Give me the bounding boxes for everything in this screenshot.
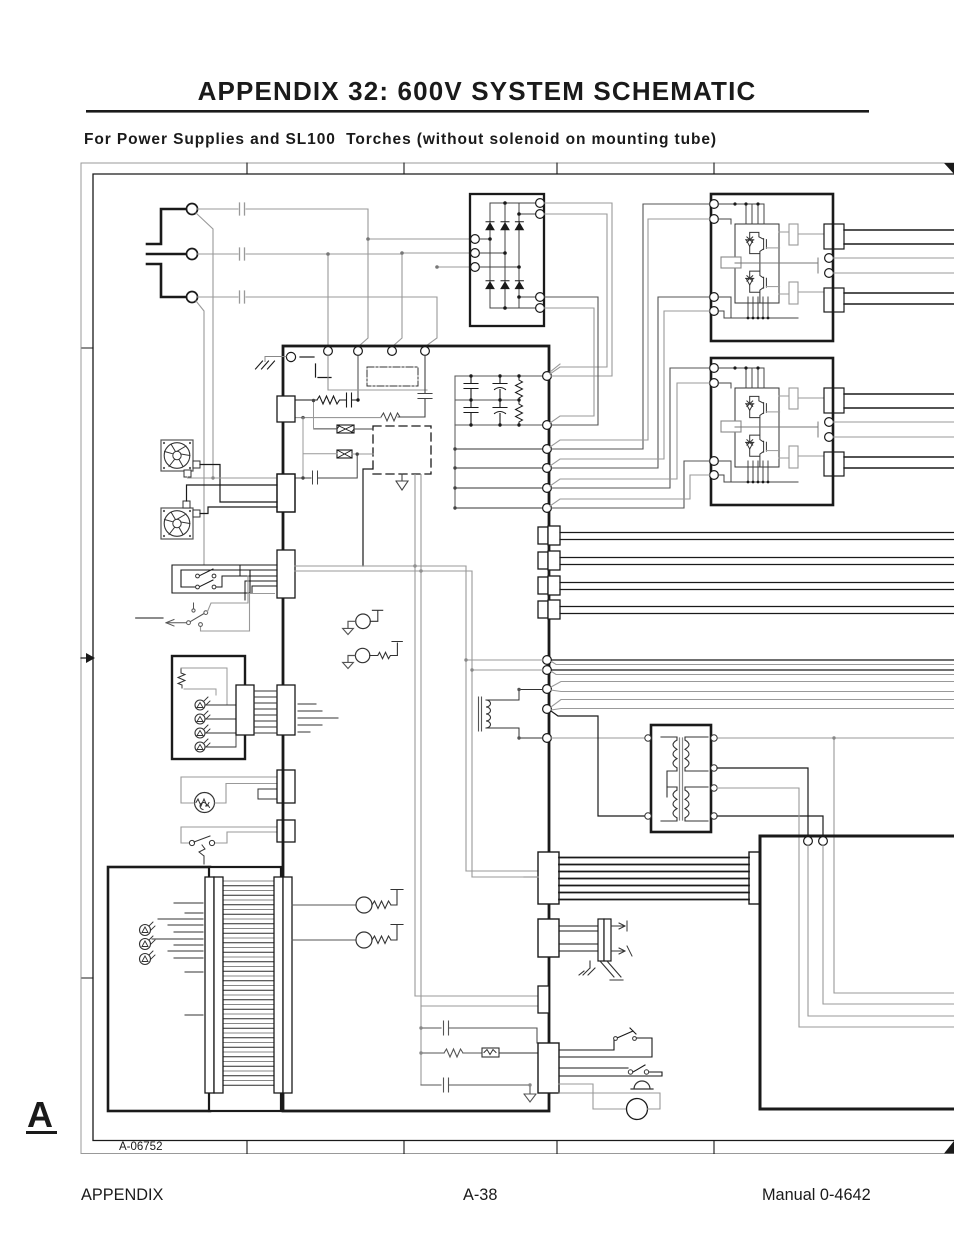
rectifier top bus: [490, 202, 536, 204]
inductor L1 wires: [486, 690, 543, 739]
LED LED3: [195, 728, 205, 738]
HF box: [760, 836, 954, 1109]
switch S4: [559, 1028, 652, 1057]
HF nested wire 2: [808, 846, 954, 1017]
resistor R3: [516, 376, 523, 400]
cap bank mid bus: [455, 399, 519, 401]
module2 snubber rect: [721, 421, 741, 432]
capacitor C4: [464, 376, 478, 400]
wire rect out3 to board circle425: [545, 297, 599, 425]
terminal TB1-3: [187, 292, 198, 303]
module1 output connector CN2: [824, 288, 844, 312]
module2 gate resistor RG3: [789, 388, 798, 409]
module2 mid wire: [735, 422, 818, 437]
input filter resistor R1: [294, 396, 342, 404]
wire phase L1 to board: [246, 209, 368, 346]
transformer T2 terminals: [645, 735, 651, 741]
torch arrow 2: [611, 946, 632, 956]
frame top-right corner triangle: [944, 163, 954, 174]
module2 inner box: [735, 388, 779, 467]
transistor Q4: [746, 440, 754, 449]
capacitor C5: [464, 400, 478, 425]
dashed inverter box: [373, 426, 431, 474]
ribbon cable wires: [223, 881, 274, 1081]
frame bottom-right corner triangle: [944, 1141, 954, 1154]
switch S3 throw wires: [208, 576, 249, 612]
module1 top bus: [718, 204, 764, 224]
diode D1e: [501, 281, 509, 289]
capacitor C-L3: [240, 291, 245, 303]
control led box: [172, 656, 245, 759]
rectifier leg 1: [489, 203, 491, 308]
pin stubs right of J5: [298, 704, 338, 732]
work lead slashes: [600, 961, 623, 980]
fan FAN2 tab1: [183, 501, 190, 508]
HF nested wire 3: [823, 846, 954, 1005]
header bar right J5: [277, 685, 295, 735]
cap bank top bus: [455, 375, 543, 377]
ribbon bundle connector J9: [749, 852, 770, 904]
HF box input circles: [804, 837, 813, 846]
switch S3 lever: [190, 614, 204, 622]
wire L1 to rectifier: [368, 238, 470, 240]
transformer T2 primary bottom: [661, 787, 677, 821]
switch S2: [199, 565, 240, 576]
module2 input circles: [710, 364, 719, 373]
capacitor C7: [493, 400, 507, 425]
title underline: [86, 110, 869, 113]
LED LED1: [195, 700, 205, 710]
input plug bracket: [147, 209, 186, 297]
module1 input circles: [710, 200, 719, 209]
module2 gate wires: [779, 396, 824, 458]
switch S1: [199, 576, 240, 587]
inductor L1 core: [479, 697, 482, 731]
ribbon block outline: [209, 867, 281, 1111]
resistor R6: [421, 1049, 482, 1057]
wire module2 in2 to circle488 diag: [550, 383, 710, 486]
module1 gate wires: [779, 232, 824, 294]
transformer T2 primary top: [661, 737, 677, 797]
panel LED LED6: [140, 939, 151, 950]
output connector CN5: [538, 526, 954, 545]
rectifier input wires: [480, 239, 520, 267]
wire gray pair right J4: [295, 566, 472, 571]
capacitor C9: [421, 1078, 530, 1094]
connector J12: [538, 1043, 559, 1093]
panel LED LED5: [140, 925, 151, 936]
wire module2 low1 to circle508: [552, 461, 710, 508]
wire branch L2 to node: [327, 254, 329, 346]
wire out5: [552, 737, 646, 739]
cap bank bottom bus: [455, 424, 543, 426]
module1 gate resistor RG2: [789, 282, 798, 304]
wire circle4 to T2: [551, 711, 648, 816]
wire rect out4 to board circle425 diag: [545, 308, 595, 423]
wire fuse F1: [314, 428, 374, 430]
transformer T2 core: [680, 738, 683, 820]
module1 mid wire: [735, 258, 818, 273]
ribbon wires: [254, 691, 277, 733]
wire rect out1 to board circle376: [545, 203, 613, 376]
board corner circle: [286, 352, 295, 361]
fan FAN1 tab2: [184, 470, 191, 477]
HF nested wire 1: [799, 838, 954, 1027]
wire pair out2: [552, 669, 954, 671]
ground arrow under dashed box: [396, 474, 408, 490]
thermistor TS2: [355, 648, 369, 662]
rectifier output node circles: [536, 199, 545, 208]
rectifier input node circles: [471, 235, 480, 244]
thermostat wires: [181, 777, 277, 803]
wire fan2 tab1 to J3: [187, 485, 278, 501]
board connector J4: [277, 550, 295, 598]
frame top zone ticks: [247, 163, 714, 174]
dash-dot control box: [367, 367, 418, 386]
board connector J7: [277, 820, 295, 842]
transformer T2 secondary top: [685, 737, 708, 771]
module2 gate resistor RG4: [789, 446, 798, 468]
wire module1 in1 to circle449: [552, 204, 710, 449]
thermostat stub box: [258, 789, 277, 799]
board connector J1: [277, 396, 295, 422]
rectifier bottom bus 2: [519, 296, 536, 298]
resistor R2: [381, 413, 425, 421]
LED LED2: [195, 714, 205, 724]
transistor Q1: [746, 237, 754, 246]
module1 lower circles: [710, 293, 719, 302]
capacitor C3: [295, 455, 357, 485]
fan FAN2 frame: [161, 508, 193, 539]
module1 box: [711, 194, 833, 341]
ribbon header bar right outer: [283, 877, 292, 1093]
input filter capacitor C1: [342, 393, 358, 407]
wire phase L3: [198, 296, 239, 298]
rectifier leg 2: [504, 203, 506, 308]
module2 output connector CN4: [824, 452, 844, 476]
wire fuse F2: [303, 453, 373, 455]
bridge rectifier D1 box: [470, 194, 544, 326]
frame bottom zone ticks: [247, 1141, 714, 1154]
front panel box: [108, 867, 210, 1111]
switch S3 wire: [136, 617, 163, 619]
pressure switch PS1: [189, 840, 194, 845]
wire gray bus top: [328, 389, 427, 391]
module2 output connector CN3: [824, 388, 844, 413]
board top node circles: [324, 347, 333, 356]
stub left of J8: [524, 876, 538, 878]
wire pair out3: [551, 682, 954, 692]
wire module2 in1 to circle488: [552, 368, 710, 488]
header bar left: [236, 685, 254, 735]
diode D1f: [515, 281, 523, 289]
wire phase L2 to board: [246, 254, 402, 346]
transistor Q3: [746, 401, 754, 410]
wire corner stub dash: [300, 356, 314, 358]
bell BZ1: [631, 1081, 653, 1089]
board bus wires lower: [455, 449, 543, 508]
rectifier bottom bus: [490, 307, 536, 309]
wire from terminal1 down left side: [196, 213, 213, 478]
pressure switch PS1 wires: [181, 827, 277, 843]
output connector CN8: [538, 600, 954, 619]
thermostat TH1: [195, 793, 215, 813]
switch S3 pin stub: [192, 609, 195, 612]
transformer T2 box: [651, 725, 711, 832]
wire circle1 down: [327, 356, 329, 391]
J10 wires: [559, 926, 598, 951]
wire module1 low1 to circle468: [552, 297, 710, 468]
wire fan1 tab1 to J3: [200, 465, 277, 503]
module1 snubber rect: [721, 257, 741, 268]
board connector J2: [277, 474, 295, 512]
diode D1a: [486, 222, 494, 230]
capacitor C-L1: [240, 203, 245, 215]
diode D1c: [515, 222, 523, 230]
switch S3 arrow: [166, 620, 174, 627]
frame inner border: [93, 174, 954, 1141]
fan FAN2 blades: [164, 511, 190, 537]
wire fan1 tab2 to J3: [188, 477, 278, 478]
led wires to header: [205, 705, 236, 747]
capacitor C-L2: [240, 248, 245, 260]
wire R2 left: [295, 417, 381, 419]
rectifier input junction dots: [488, 237, 492, 241]
fuse F2: [337, 450, 352, 458]
module2 box: [711, 358, 833, 505]
connector J11: [538, 986, 549, 1013]
module2 emitter pins: [718, 461, 798, 482]
thermistor TS1: [356, 614, 371, 629]
IGBT module IGBT2: [710, 358, 954, 505]
inductor L1 winding: [486, 700, 491, 728]
IGBT module IGBT1: [710, 194, 954, 341]
wire from terminal3 down left side: [196, 301, 204, 565]
chassis ground GND2: [579, 961, 595, 975]
panel LED LED7: [140, 954, 151, 965]
module2 top bus: [718, 368, 764, 388]
wire phase L1: [198, 208, 239, 210]
wire module1 in2 to circle449 diag: [550, 219, 710, 447]
module1 sense circles: [825, 254, 834, 263]
torch arrow 1: [611, 921, 627, 931]
wire loop C: [240, 576, 277, 600]
fan FAN1 tab1: [193, 461, 200, 468]
LED LED4: [195, 742, 205, 752]
diode D1d: [486, 281, 494, 289]
board connector J3: [277, 474, 295, 512]
wire left riser B: [302, 418, 304, 478]
wire loop B: [181, 570, 277, 587]
fan FAN2 tab2: [193, 510, 200, 517]
thermistor TS4: [292, 939, 356, 941]
ribbon header bar left outer: [205, 877, 214, 1093]
wire module2 low2 to circle508 diag: [550, 475, 710, 506]
capacitor C8: [421, 1021, 537, 1043]
wire left riser A: [313, 401, 315, 429]
transistor Q2: [746, 276, 754, 285]
long gray verticals: [415, 475, 421, 1086]
module1 emitter pins: [718, 297, 798, 318]
wire branch into HF box: [833, 738, 835, 837]
wire T2 sec2 to HF box: [717, 816, 823, 837]
module2 sense circles: [825, 418, 834, 427]
wire phase L3 to board: [246, 297, 437, 346]
pin header bars: [598, 919, 604, 961]
wire pair out1: [552, 659, 954, 661]
ribbon header bar left inner: [214, 877, 223, 1093]
fan FAN1 blades: [164, 443, 190, 469]
terminal TB1-1: [187, 204, 198, 215]
terminal TB1-2: [187, 249, 198, 260]
module1 inner box: [735, 224, 779, 303]
capacitor C2: [418, 356, 432, 418]
diode D1b: [501, 222, 509, 230]
fan FAN1 frame: [161, 440, 193, 471]
frame outer border: [81, 163, 954, 1154]
wire from dashed box down: [363, 469, 372, 566]
wire loop A: [172, 565, 277, 593]
varistor VR1: [482, 1048, 499, 1057]
wire pair out4: [551, 700, 954, 711]
module2 lower circles: [710, 457, 719, 466]
board connector J6: [277, 770, 295, 803]
capacitor C6: [493, 376, 507, 400]
right edge circle tick top: [550, 364, 560, 372]
ribbon bundle wires: [559, 858, 749, 900]
cap bank junction dots: [469, 374, 472, 377]
rectifier leg 3: [518, 203, 520, 308]
board right edge circles: [543, 372, 552, 381]
wire circle2 down: [357, 356, 359, 401]
ribbon header bar right inner: [274, 877, 283, 1093]
led box resistor R5: [178, 668, 185, 688]
pump motor M1 wires: [559, 1084, 626, 1109]
wire T2 sec1 to HF box: [717, 768, 808, 837]
gray loop verticals left: [466, 566, 543, 877]
resistor R4: [516, 400, 523, 425]
wire fan2 tab2 to J3: [200, 507, 277, 514]
frame left arrow marker: [86, 653, 95, 663]
module1 gate resistor RG1: [789, 224, 798, 245]
frame left zone ticks: [82, 348, 93, 978]
board right circles mid: [543, 656, 552, 665]
wire module1 low2 to circle468 diag: [550, 311, 710, 466]
output connector CN6: [538, 551, 954, 570]
switch S5: [559, 1065, 662, 1076]
connector J10: [538, 919, 559, 957]
wire L2 to rectifier: [402, 252, 470, 254]
pump motor wire right: [559, 1093, 660, 1109]
main board outline: [283, 346, 549, 1111]
fuse F1: [337, 425, 354, 433]
chassis ground GND1: [265, 357, 286, 362]
cap bank left rail: [454, 376, 456, 508]
HF nested wire 4: [834, 838, 954, 993]
ground arrow bottom: [524, 1094, 536, 1102]
pump motor M1: [627, 1099, 648, 1120]
panel pin stubs: [152, 903, 203, 1015]
wire T2 gray to HF box: [717, 788, 799, 837]
wire rect out2 to board circle376 diag: [545, 214, 608, 374]
rectifier top bus 2: [519, 213, 536, 215]
output connector CN7: [538, 576, 954, 595]
chassis dash step: [316, 364, 332, 378]
module1 output wires: [844, 230, 954, 244]
wire phase L2: [198, 253, 239, 255]
wire L3 to rectifier: [437, 266, 470, 268]
module1 output connector CN1: [824, 224, 844, 249]
led box wires: [181, 668, 227, 705]
ribbon bundle connector J8: [538, 852, 559, 904]
transformer T2 secondary bottom: [685, 787, 708, 821]
module2 output wires: [844, 394, 954, 408]
wire to J10: [415, 996, 538, 1006]
thermistor TS3: [292, 904, 356, 906]
